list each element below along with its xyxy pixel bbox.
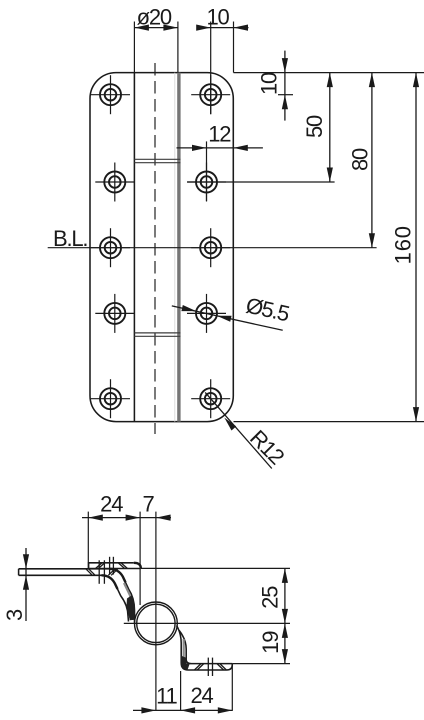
section dim 24/7 extension line <box>139 512 141 605</box>
svg-text:10: 10 <box>257 72 282 95</box>
screw hole R1 <box>191 75 230 114</box>
section barrel outer circle <box>135 602 178 645</box>
svg-text:11: 11 <box>156 683 177 708</box>
section countersunk hole left leaf <box>86 560 118 584</box>
dimension 50 label <box>302 115 327 138</box>
section barrel vertical centerline <box>155 512 157 711</box>
svg-text:25: 25 <box>258 586 283 609</box>
section right bend dark wedge <box>181 656 189 670</box>
section dim 11 label <box>156 683 177 708</box>
barrel left edge / left leaf right edge <box>133 73 135 422</box>
top edge extension line <box>234 72 424 74</box>
section right leaf flat top edge <box>192 663 233 665</box>
section dim 3 label <box>2 609 27 621</box>
svg-text:7: 7 <box>142 492 154 517</box>
right leaf left edge (thick gray) <box>177 73 180 422</box>
dimension 160 line and arrows <box>413 73 419 422</box>
dimension ø20 extension lines <box>134 22 178 73</box>
dimension 12 label <box>208 122 231 147</box>
label R12 <box>245 425 289 469</box>
section right leaf bend inner <box>179 631 191 664</box>
row2 extension line <box>187 181 334 183</box>
svg-text:3: 3 <box>2 609 27 621</box>
section 19 extension line (right leaf top) <box>232 663 290 665</box>
screw hole L5 <box>91 379 130 418</box>
dimension 10 top label <box>206 5 229 30</box>
section countersunk hole upper leaf <box>96 557 128 575</box>
svg-text:50: 50 <box>302 115 327 138</box>
section dim 24 and 7 line and arrows <box>82 515 171 521</box>
dimension 80 line and arrows <box>369 73 375 248</box>
screw hole L1 <box>91 75 130 114</box>
section left leaf bend outer <box>109 569 135 623</box>
screw hole L2 <box>95 163 134 202</box>
section dim 3 arrows <box>23 548 29 621</box>
screw hole R2 <box>187 163 226 202</box>
barrel right faint edge <box>174 73 176 422</box>
section left leaf flat outline <box>19 569 109 576</box>
screw hole R4 <box>187 294 226 333</box>
lower knuckle joint lines <box>134 333 180 336</box>
dimension 12 extension line <box>206 141 208 201</box>
section left leaf bend outer corner (thick) <box>109 569 126 583</box>
screw hole R3 <box>191 228 230 267</box>
dimension 10 top extension line <box>233 22 235 73</box>
row1 extension line (short) <box>278 94 293 96</box>
section 25 extension line (upper leaf underside) <box>141 567 290 569</box>
svg-text:10: 10 <box>206 5 229 30</box>
screw hole R5 <box>191 379 230 418</box>
dimension 50 line and arrows <box>327 73 333 182</box>
section left bend gray shadow <box>124 583 132 619</box>
section dim 19 label <box>258 631 283 654</box>
svg-text:160: 160 <box>391 225 416 264</box>
label Ø5.5 <box>244 293 292 327</box>
upper knuckle joint lines <box>134 159 180 162</box>
hinge plate outline (both leaves, rounded corners R12) <box>90 73 233 422</box>
section dim 24 label <box>100 492 123 517</box>
leader line Ø5.5 <box>172 305 283 330</box>
dimension 10 top line and arrows <box>196 25 248 31</box>
section right leaf bend outer <box>177 626 233 671</box>
svg-text:24: 24 <box>190 683 213 708</box>
section bottom extension line mid <box>180 671 182 711</box>
dimension 10 right label <box>257 72 282 95</box>
section dim 24 label <box>190 683 213 708</box>
svg-text:19: 19 <box>258 631 283 654</box>
screw hole L3 <box>91 228 130 267</box>
hinge center axis (dashed) <box>154 63 156 434</box>
leader line R12 <box>205 392 272 468</box>
section bottom extension line right <box>231 665 233 711</box>
section dim 11 and 24 line and arrows <box>133 707 232 713</box>
screw hole L4 <box>95 294 134 333</box>
label B.L <box>53 226 87 251</box>
dimension 10 right line and arrows <box>282 51 288 121</box>
section dim 24 extension line left <box>87 512 89 569</box>
svg-text:12: 12 <box>208 122 231 147</box>
dimension ø20 label <box>137 5 172 30</box>
section barrel inner circle <box>137 604 175 642</box>
section barrel horizontal centerline <box>124 622 290 624</box>
section left leaf bend inner <box>102 575 129 621</box>
section left bend dark wedge <box>127 596 135 621</box>
svg-text:B.L.: B.L. <box>53 226 87 251</box>
section dim 25 label <box>258 586 283 609</box>
dimension 160 label <box>391 225 416 264</box>
dimension 80 label <box>348 148 373 171</box>
dimension ø20 line and arrows <box>134 25 178 31</box>
section countersunk hole right leaf <box>194 658 226 676</box>
section right bend gray shadow <box>183 639 185 661</box>
dimension 12 line and arrows <box>177 145 263 151</box>
svg-text:80: 80 <box>348 148 373 171</box>
hole column extension line <box>210 22 212 115</box>
section dim 25/19 line and arrows <box>282 568 288 663</box>
section dim 7 label <box>142 492 154 517</box>
B.L datum line (row3) <box>48 247 377 249</box>
section left leaf bend inner corner (thick) <box>102 575 118 589</box>
svg-text:24: 24 <box>100 492 123 517</box>
section upper leaf outline <box>89 563 141 569</box>
svg-text:ø20: ø20 <box>137 5 172 30</box>
bottom edge extension line <box>234 421 424 423</box>
